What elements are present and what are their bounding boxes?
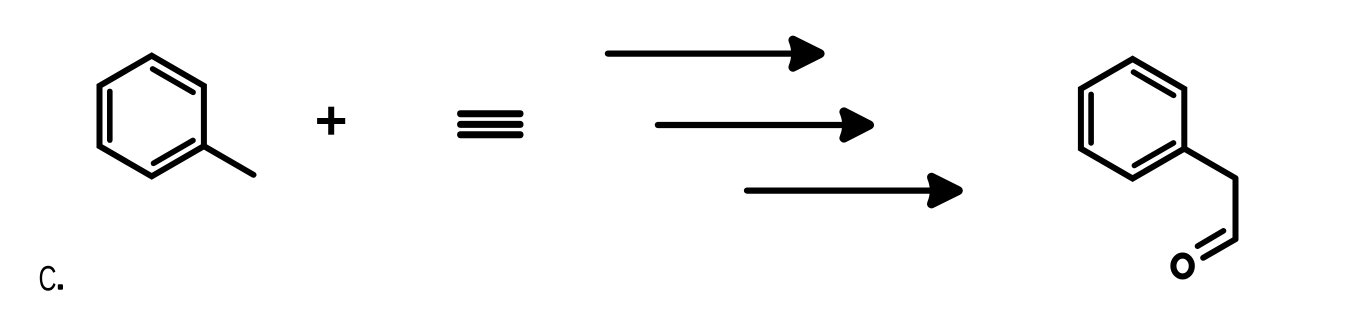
acetylene triple bond line 2 (457, 121, 523, 128)
toluene ring double bond (left) (107, 91, 113, 140)
plus sign (317, 118, 345, 124)
product ring double bond (top-right) (1134, 72, 1174, 95)
reaction arrow 1 shaft (608, 50, 792, 56)
toluene ring double bond (bottom-right) (154, 140, 194, 163)
reaction arrow 3 head (932, 177, 959, 204)
product O label (1173, 256, 1191, 277)
acetylene triple bond line 3 (457, 131, 523, 138)
acetylene triple bond line 1 (457, 110, 523, 117)
label period (58, 284, 63, 290)
svg-text:C: C (39, 259, 57, 298)
product CH2-CHO chain (1184, 149, 1235, 258)
reaction arrow 2 head (844, 112, 870, 138)
reaction arrow 3 shaft (747, 188, 930, 194)
toluene benzene ring (100, 56, 204, 177)
reaction arrow 1 head (793, 40, 820, 67)
product C=O second line (1198, 231, 1224, 246)
product ring double bond (left) (1088, 94, 1094, 142)
product ring double bond (bottom-right) (1134, 143, 1173, 166)
reaction arrow 2 shaft (658, 122, 843, 128)
product benzene ring (1081, 59, 1184, 179)
toluene methyl bond (204, 146, 254, 175)
toluene ring double bond (top-right) (153, 69, 194, 92)
